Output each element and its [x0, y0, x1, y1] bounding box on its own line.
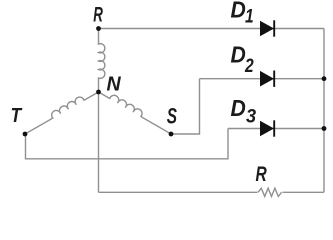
svg-text:N: N: [107, 73, 122, 95]
winding S (right diagonal coil): [99, 87, 175, 134]
wire bottom from bus to N vertical: [283, 191, 325, 193]
node N dot: [96, 90, 101, 95]
svg-text:3: 3: [246, 105, 257, 127]
label D2: [231, 41, 246, 67]
wire S to D2 riser: [171, 79, 200, 134]
node T dot: [23, 132, 28, 137]
svg-text:1: 1: [245, 5, 254, 27]
svg-text:D: D: [231, 0, 246, 23]
svg-text:D: D: [231, 95, 246, 121]
svg-text:S: S: [167, 105, 178, 129]
svg-text:R: R: [93, 2, 103, 26]
svg-text:T: T: [11, 105, 23, 128]
label R load: [256, 162, 268, 186]
diode D1: [260, 20, 274, 36]
svg-text:D: D: [231, 41, 246, 67]
diode D3: [260, 120, 274, 136]
node S dot: [169, 132, 174, 137]
svg-text:2: 2: [244, 54, 254, 76]
resistor R zigzag: [258, 188, 282, 196]
junction dot bus D3: [322, 126, 327, 131]
label N: [107, 73, 122, 95]
diode D2: [260, 71, 274, 87]
wire right bus: [323, 29, 325, 193]
wire D2 row: [200, 78, 325, 80]
wire bottom left of resistor: [99, 191, 258, 193]
svg-text:R: R: [256, 162, 268, 186]
winding T (left diagonal coil): [22, 87, 98, 134]
wire D3 row: [228, 128, 324, 130]
label R phase: [93, 2, 103, 26]
junction dot bus D2: [322, 76, 327, 81]
label S: [167, 105, 178, 129]
node R dot: [96, 26, 101, 31]
label T: [11, 105, 23, 128]
wire N vertical down: [98, 92, 100, 192]
winding R (vertical coil): [99, 29, 105, 93]
wire R phase to D1 to bus: [99, 28, 325, 30]
label D1: [231, 0, 246, 23]
label D3: [231, 95, 246, 121]
wire T down and across: [26, 129, 229, 159]
